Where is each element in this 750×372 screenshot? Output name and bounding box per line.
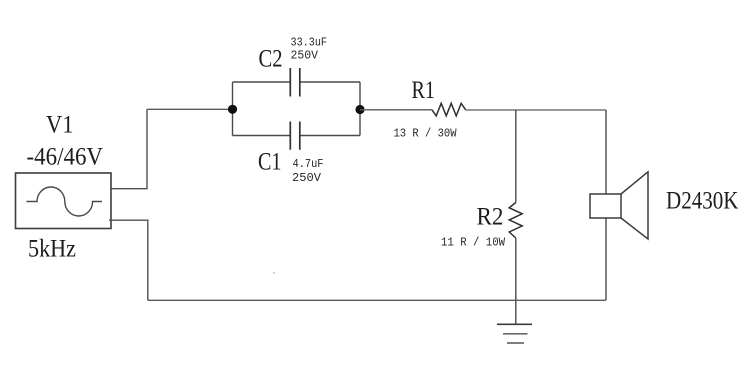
wire cap loop right vertical — [359, 82, 361, 136]
voltage source V1 box — [16, 173, 112, 229]
svg-text:250V: 250V — [292, 171, 322, 185]
svg-text:C1: C1 — [258, 149, 282, 176]
svg-text:250V: 250V — [291, 49, 319, 63]
scan speck noise — [273, 272, 275, 274]
wire R2 top lead — [515, 110, 517, 203]
capacitor C2 plates — [290, 68, 300, 97]
svg-text:13 R / 30W: 13 R / 30W — [394, 126, 458, 140]
capacitor C1 plates — [290, 122, 300, 150]
svg-text:R2: R2 — [477, 204, 504, 231]
wire speaker bottom lead — [605, 218, 607, 300]
ground symbol — [497, 324, 532, 343]
wire right dot to R1 — [360, 109, 432, 111]
wire cap loop left vertical — [232, 82, 234, 136]
svg-text:11 R / 10W: 11 R / 10W — [441, 236, 506, 250]
svg-text:C2: C2 — [259, 46, 283, 73]
sine wave symbol inside V1 — [27, 187, 103, 216]
resistor R2 zigzag — [509, 203, 522, 239]
resistor R1 zigzag — [432, 103, 466, 116]
svg-text:5kHz: 5kHz — [28, 236, 76, 263]
svg-text:4.7uF: 4.7uF — [293, 157, 324, 171]
node junction dot right — [355, 105, 364, 114]
wire bottom return rail — [148, 299, 606, 301]
speaker D2430K body — [590, 172, 648, 239]
wire cap loop top rail — [233, 81, 361, 83]
wire riser to left cap node — [147, 108, 230, 110]
svg-text:-46/46V: -46/46V — [27, 144, 104, 171]
wire V1 top output to vertical riser — [110, 109, 147, 188]
svg-text:V1: V1 — [46, 112, 74, 139]
wire R2 bottom lead to ground — [515, 238, 517, 324]
svg-text:33.3uF: 33.3uF — [291, 36, 328, 50]
node junction dot left — [228, 105, 237, 114]
svg-text:R1: R1 — [412, 77, 436, 104]
wire cap loop bottom rail — [233, 135, 361, 137]
wire R1 to speaker corner — [466, 109, 606, 111]
wire left return riser — [109, 220, 148, 300]
wire speaker top lead — [605, 110, 607, 194]
svg-text:D2430K: D2430K — [666, 188, 739, 215]
